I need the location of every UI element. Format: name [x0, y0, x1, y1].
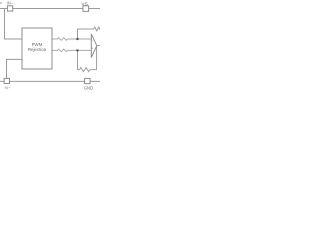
svg-text:GND: GND: [84, 86, 93, 91]
svg-text:+: +: [91, 46, 93, 50]
svg-text:Rejection: Rejection: [28, 47, 47, 52]
svg-text:VS: VS: [81, 2, 87, 8]
svg-text:IN+: IN+: [5, 86, 12, 90]
svg-text:IN−: IN−: [7, 1, 14, 6]
svg-text:−: −: [92, 38, 94, 42]
